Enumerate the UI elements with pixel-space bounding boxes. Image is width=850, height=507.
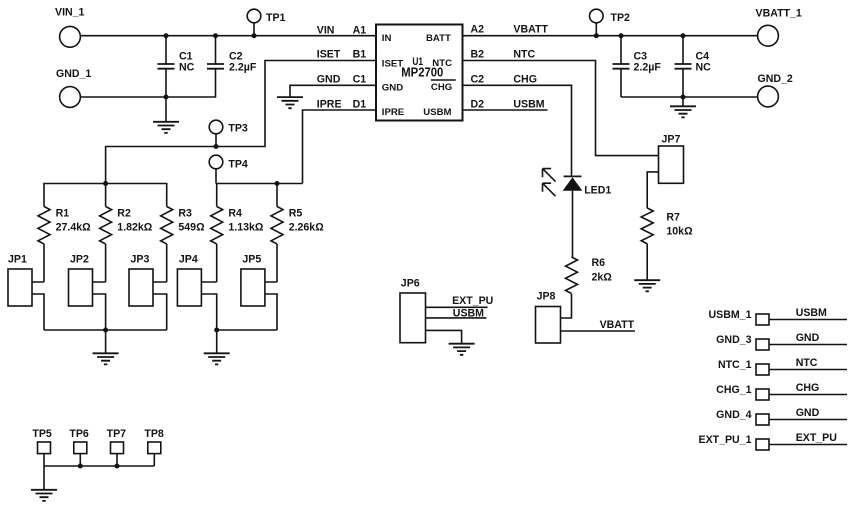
wire TP bus <box>44 465 154 467</box>
resistor R2 1.82k <box>100 207 153 244</box>
test point TP3 <box>209 120 248 146</box>
wire TP5 to ground <box>43 466 45 489</box>
svg-text:ISET: ISET <box>317 49 341 61</box>
test point TP1 <box>247 9 285 36</box>
test point TP6 <box>69 428 89 466</box>
connector VIN_1 <box>55 6 85 47</box>
svg-text:CHG: CHG <box>513 74 537 86</box>
svg-text:JP5: JP5 <box>242 254 261 266</box>
svg-text:R7: R7 <box>666 212 680 224</box>
junction dot C1 top <box>164 33 169 38</box>
pin label D2 USBM <box>471 98 545 110</box>
svg-text:1.82kΩ: 1.82kΩ <box>117 221 153 233</box>
wire R2 bottom <box>105 244 107 282</box>
jumper JP1 <box>8 254 44 330</box>
ground below C1 <box>153 97 179 133</box>
svg-text:C2: C2 <box>471 74 485 86</box>
svg-text:ISET: ISET <box>382 59 403 70</box>
svg-text:TP4: TP4 <box>228 159 248 171</box>
svg-text:R3: R3 <box>178 207 192 219</box>
svg-text:JP4: JP4 <box>179 254 198 266</box>
junction dot TP3 <box>214 144 219 149</box>
svg-text:JP2: JP2 <box>70 254 89 266</box>
connector VBATT_1 <box>756 7 802 46</box>
wire R6 to JP8 <box>561 294 572 318</box>
test point TP2 <box>590 9 631 36</box>
wire C3 to GND_2 <box>621 96 758 98</box>
wire IPRE net <box>303 110 377 184</box>
svg-text:VBATT: VBATT <box>600 319 635 331</box>
svg-text:USBM: USBM <box>453 307 484 319</box>
svg-text:GND_4: GND_4 <box>716 409 751 421</box>
svg-text:IPRE: IPRE <box>382 107 405 118</box>
svg-text:NC: NC <box>179 61 195 73</box>
svg-text:JP6: JP6 <box>401 278 420 290</box>
svg-text:R4: R4 <box>228 207 242 219</box>
resistor R6 2k <box>566 257 613 294</box>
resistor R1 27.4k <box>38 207 91 244</box>
svg-text:MP2700: MP2700 <box>401 66 443 80</box>
jumper JP3 <box>129 254 167 330</box>
ground rail 2 <box>204 353 230 364</box>
svg-text:GND: GND <box>382 82 403 93</box>
svg-text:27.4kΩ: 27.4kΩ <box>56 221 92 233</box>
ground at GND pin <box>277 97 303 108</box>
svg-text:R6: R6 <box>592 257 606 269</box>
junction dot TP2 <box>594 33 599 38</box>
connector USBM_1 <box>709 307 847 325</box>
svg-text:CHG_1: CHG_1 <box>716 384 751 396</box>
test point TP4 <box>209 155 248 183</box>
capacitor C1 <box>158 36 195 97</box>
op-amp U1 MP2700 IC body <box>376 25 463 121</box>
wire LED to R6 <box>572 191 574 257</box>
svg-text:2.2µF: 2.2µF <box>634 61 662 73</box>
svg-text:IPRE: IPRE <box>317 98 342 110</box>
junction dot C3 top <box>619 33 624 38</box>
svg-text:TP5: TP5 <box>32 428 52 440</box>
junction dot C1 bottom <box>164 95 169 100</box>
wire rail B (R4-R5 tops) <box>217 184 303 207</box>
svg-text:VBATT: VBATT <box>513 24 548 36</box>
wire JP6 pin2 USBM <box>426 317 487 319</box>
svg-text:JP7: JP7 <box>662 133 681 145</box>
connector CHG_1 <box>716 382 847 400</box>
svg-text:10kΩ: 10kΩ <box>666 226 693 238</box>
junction dot C4 top <box>681 33 686 38</box>
svg-text:JP8: JP8 <box>537 291 556 303</box>
connector NTC_1 <box>718 357 847 375</box>
wire JP8 VBATT stub <box>561 330 636 332</box>
svg-text:TP8: TP8 <box>144 428 164 440</box>
pin label ISET B1 <box>317 49 366 61</box>
wire VIN net <box>80 35 376 37</box>
junction dot C4 bottom <box>681 95 686 100</box>
jumper JP5 <box>241 254 277 330</box>
jumper JP2 <box>69 254 106 330</box>
svg-text:TP2: TP2 <box>611 12 631 24</box>
connector GND_4 <box>716 407 847 425</box>
connector GND_1 <box>56 68 91 107</box>
svg-text:C1: C1 <box>353 74 367 86</box>
pin label A2 VBATT <box>471 24 549 36</box>
LED emission arrows <box>543 169 556 197</box>
junction dot TP7 <box>115 464 120 469</box>
wire R1 bottom <box>43 244 45 282</box>
wire JP6 pin1 EXT_PU <box>426 306 488 308</box>
pin label VIN A1 <box>317 24 366 36</box>
svg-text:EXT_PU_1: EXT_PU_1 <box>699 434 752 446</box>
svg-text:LED1: LED1 <box>584 185 611 197</box>
svg-text:TP6: TP6 <box>69 428 89 440</box>
svg-text:GND: GND <box>796 407 820 419</box>
jumper JP4 <box>177 254 216 330</box>
svg-text:GND: GND <box>796 332 820 344</box>
svg-text:B1: B1 <box>353 49 367 61</box>
svg-text:VIN_1: VIN_1 <box>55 6 85 18</box>
svg-text:IN: IN <box>382 33 392 44</box>
junction dot rail A at R2 <box>103 181 108 186</box>
svg-text:USBM: USBM <box>423 107 451 118</box>
svg-text:TP1: TP1 <box>266 12 286 24</box>
wire R5 bottom <box>276 244 278 282</box>
svg-text:EXT_PU: EXT_PU <box>796 432 837 444</box>
svg-text:JP3: JP3 <box>131 254 150 266</box>
resistor R3 549 <box>161 207 205 244</box>
wire R7 to ground <box>646 244 648 280</box>
junction dot rail2 gnd <box>214 328 219 333</box>
LED LED1 <box>563 176 612 196</box>
test point TP8 <box>144 428 164 466</box>
svg-text:TP3: TP3 <box>228 123 248 135</box>
ground below TP5 <box>31 490 57 501</box>
wire GND_1 bottom <box>80 69 215 98</box>
svg-text:JP1: JP1 <box>8 254 27 266</box>
svg-text:R1: R1 <box>56 207 70 219</box>
jumper JP6 <box>400 278 426 343</box>
junction dot TP1 <box>252 33 257 38</box>
junction dot rail B at R5 <box>275 181 280 186</box>
svg-text:R2: R2 <box>117 207 131 219</box>
wire JP6 pin3 to ground <box>426 330 462 343</box>
pin label IPRE D1 <box>317 98 366 110</box>
svg-text:R5: R5 <box>289 207 303 219</box>
connector GND_3 <box>716 332 847 350</box>
svg-text:CHG: CHG <box>431 82 452 93</box>
svg-text:TP7: TP7 <box>107 428 127 440</box>
pin label B2 NTC <box>471 49 536 61</box>
svg-text:NTC_1: NTC_1 <box>718 359 752 371</box>
wire JP7 to R7 <box>647 172 658 208</box>
svg-text:EXT_PU: EXT_PU <box>452 295 493 307</box>
svg-text:GND_3: GND_3 <box>716 334 751 346</box>
resistor R4 1.13k <box>211 207 264 244</box>
resistor R7 10k <box>641 208 693 244</box>
svg-text:549Ω: 549Ω <box>178 221 205 233</box>
svg-text:USBM: USBM <box>513 98 544 110</box>
svg-text:B2: B2 <box>471 49 485 61</box>
svg-text:2kΩ: 2kΩ <box>592 272 613 284</box>
wire R4 bottom <box>216 244 218 282</box>
svg-text:D1: D1 <box>353 98 367 110</box>
capacitor C2 <box>207 36 257 74</box>
resistor R5 2.26k <box>271 207 324 244</box>
wire GND pin <box>290 85 376 96</box>
svg-text:VBATT_1: VBATT_1 <box>756 7 802 19</box>
svg-text:VIN: VIN <box>317 24 335 36</box>
pin label C2 CHG <box>471 74 537 86</box>
svg-text:GND: GND <box>317 74 341 86</box>
pin label GND C1 <box>317 74 366 86</box>
test point TP5 <box>32 428 52 466</box>
junction dot TP6 <box>78 464 83 469</box>
svg-text:NTC: NTC <box>796 357 818 369</box>
svg-text:NTC: NTC <box>513 49 535 61</box>
connector EXT_PU_1 <box>699 432 848 450</box>
wire bottom rail 2 <box>217 330 277 353</box>
svg-text:2.2µF: 2.2µF <box>229 61 257 73</box>
wire ISET net <box>106 61 376 184</box>
wire rail A (R1-R3 tops) <box>44 184 167 207</box>
svg-text:USBM_1: USBM_1 <box>709 309 752 321</box>
svg-text:GND_1: GND_1 <box>56 68 91 80</box>
wire CHG net <box>463 85 572 176</box>
svg-text:BATT: BATT <box>426 33 451 44</box>
svg-text:A1: A1 <box>353 24 367 36</box>
wire R3 bottom <box>166 244 168 282</box>
svg-text:A2: A2 <box>471 24 485 36</box>
svg-text:NC: NC <box>696 61 712 73</box>
junction dot C2 top <box>213 33 218 38</box>
wire VBATT net <box>463 35 758 37</box>
svg-text:D2: D2 <box>471 98 485 110</box>
ground below C4 <box>670 97 696 117</box>
svg-text:1.13kΩ: 1.13kΩ <box>228 221 264 233</box>
junction dot rail1 gnd <box>103 328 108 333</box>
svg-text:2.26kΩ: 2.26kΩ <box>289 221 325 233</box>
wire USBM net <box>463 109 548 111</box>
svg-text:GND_2: GND_2 <box>758 73 793 85</box>
capacitor C3 <box>613 36 662 97</box>
wire bottom rail 1 <box>44 330 167 353</box>
connector GND_2 <box>758 73 793 107</box>
ground below R7 <box>634 280 660 291</box>
ground rail 1 <box>93 353 119 364</box>
wire NTC net <box>463 61 659 156</box>
svg-text:CHG: CHG <box>796 382 820 394</box>
capacitor C4 <box>675 36 712 97</box>
ground below JP6 <box>449 344 475 355</box>
jumper JP8 <box>536 291 561 343</box>
svg-text:USBM: USBM <box>796 307 827 319</box>
jumper JP7 <box>659 133 684 183</box>
test point TP7 <box>107 428 127 466</box>
